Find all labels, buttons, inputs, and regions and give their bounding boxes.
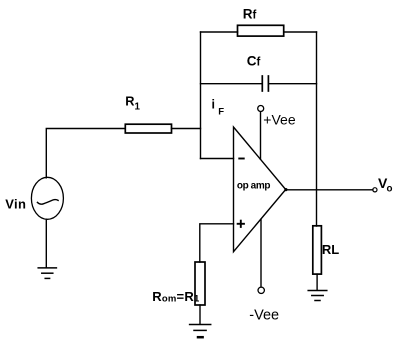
resistor RL <box>313 226 322 274</box>
wire +Vee to op-amp <box>260 112 262 160</box>
ground below Vin <box>38 268 56 279</box>
junction dot at op-amp output <box>284 188 287 191</box>
svg-text:+Vee: +Vee <box>263 111 296 127</box>
svg-text:Vin: Vin <box>5 197 26 212</box>
svg-text:R1: R1 <box>125 94 140 113</box>
wire left vertical of feedback loop <box>200 32 202 159</box>
op-amp minus sign <box>238 158 244 160</box>
capacitor Cf left plate <box>261 76 263 91</box>
svg-text:op amp: op amp <box>237 180 270 191</box>
wire Rom to ground <box>199 305 201 324</box>
ground below RL <box>308 291 327 301</box>
+Vee terminal circle <box>258 106 264 112</box>
wire Cf right <box>269 83 317 85</box>
wire output <box>286 189 373 191</box>
resistor R1 <box>125 124 171 133</box>
wire Rf to right vertical <box>284 31 317 33</box>
wire inverting input <box>201 158 234 160</box>
op-amp U1 triangle <box>234 127 286 252</box>
-Vee terminal circle <box>258 287 264 293</box>
svg-text:Rom=R1: Rom=R1 <box>152 289 200 305</box>
output terminal circle Vo <box>373 188 377 192</box>
svg-text:Vo: Vo <box>378 175 392 194</box>
wire noninverting input <box>200 224 234 262</box>
wire op-amp to -Vee <box>260 219 262 287</box>
svg-text:i: i <box>212 98 215 112</box>
svg-text:RL: RL <box>322 242 339 257</box>
wire right vertical <box>316 32 318 226</box>
svg-text:-Vee: -Vee <box>249 308 279 324</box>
capacitor Cf right plate <box>267 76 269 91</box>
svg-text:F: F <box>218 106 224 117</box>
resistor Rf <box>238 25 284 36</box>
resistor Rom <box>195 262 205 305</box>
wire R1 to inverting node <box>172 128 201 130</box>
wire RL to ground <box>316 274 318 290</box>
wire Vin to ground <box>45 219 47 267</box>
wire Vin to R1 <box>46 129 125 178</box>
AC source Vin ellipse <box>31 177 63 219</box>
op-amp plus sign <box>237 220 245 228</box>
sine symbol inside Vin <box>37 200 58 205</box>
svg-text:Rf: Rf <box>243 6 257 21</box>
wire Cf left <box>201 83 263 85</box>
ground below Rom <box>190 325 211 338</box>
wire top from left node to Rf <box>201 31 238 33</box>
svg-text:Cf: Cf <box>247 54 261 69</box>
